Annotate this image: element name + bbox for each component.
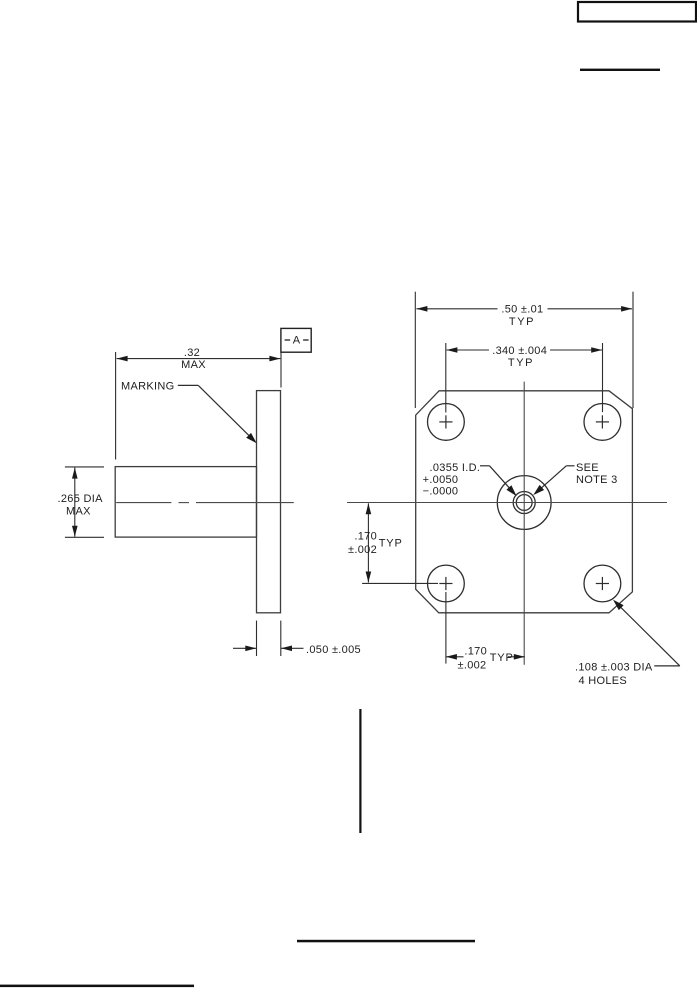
horizontal center line [347,502,667,504]
extension line bottom (from bottom-left hole leftward) [362,582,438,584]
dimension .050 ±.005 [233,621,304,656]
header number box (top right) [578,2,696,22]
svg-text:SEE: SEE [576,462,599,474]
mounting hole bottom-left [428,565,465,602]
datum flag -A- [281,328,311,352]
dimension line left part [446,349,489,351]
arrowhead up .170 left [366,503,372,514]
dimension line vertical [367,503,369,582]
arrow stem right [281,647,304,649]
extension line right through top-right hole [602,343,604,412]
footer: bottom-left horizontal rule [0,985,194,988]
svg-text:.170: .170 [464,646,487,658]
extension line right (below datum box) [280,352,282,387]
extension line right [280,621,282,656]
mounting hole top-right [584,404,621,441]
svg-text:TYP: TYP [509,316,535,328]
flange outline octagon [416,391,633,613]
body outline (cylinder side view) [115,467,256,537]
dimension line vertical [74,468,76,537]
svg-text:MARKING: MARKING [121,381,174,393]
svg-text:.0355 I.D.: .0355 I.D. [430,462,481,474]
arrowhead pointing left (right side) [281,646,292,652]
svg-text:±.002: ±.002 [458,660,487,672]
arrowhead down .265 [72,526,78,537]
dimension line [117,358,281,360]
arrow stem left [233,647,256,649]
header underline (top right) [580,69,660,71]
dimension line right part [550,349,602,351]
dimension .32 MAX [116,352,281,460]
svg-text:.340 ±.004: .340 ±.004 [492,345,547,357]
arrowhead left .170 bottom [446,654,457,660]
svg-text:TYP: TYP [379,537,403,549]
extension line below bottom-left hole [445,592,447,664]
arrowhead pointing right (left side) [245,646,256,652]
leader .108 [618,604,680,666]
svg-text:TYP: TYP [508,357,534,369]
dimension .265 DIA MAX [65,467,104,537]
arrowhead right .340 [591,347,602,353]
arrowhead right of .32 [269,356,280,362]
flange outline (side view) [257,391,281,613]
svg-text:±.002: ±.002 [348,544,377,556]
svg-text:.170: .170 [354,531,377,543]
arrowhead left .50 [416,306,427,312]
leader .0355 [480,466,512,491]
arrow stem right [508,656,525,658]
MARKING leader arrowhead [246,433,257,444]
arrowhead down .170 left [366,572,372,583]
svg-text:.050 ±.005: .050 ±.005 [306,644,361,656]
mounting hole top-left [428,404,465,441]
svg-text:A: A [293,335,301,347]
dimension line right part [548,308,633,310]
svg-text:.50 ±.01: .50 ±.01 [501,304,543,316]
arrowhead left of .32 [117,356,128,362]
footer: center horizontal rule [297,940,475,943]
dimension .170 ±.002 TYP (left, vertical) [362,503,438,583]
arrowhead right .50 [621,306,632,312]
arrow stem left [446,656,464,658]
extension line left [414,292,416,408]
leader SEE NOTE 3 [538,466,575,491]
dimension .50 ±.01 TYP [415,292,633,408]
extension line left [115,352,117,460]
extension tick top [65,466,104,468]
leader SEE NOTE 3 arrowhead [533,485,544,495]
extension line right [632,292,634,408]
arrowhead right .170 bottom [514,654,525,660]
MARKING leader [178,385,252,438]
leader .108 arrowhead [613,600,624,611]
svg-text:MAX: MAX [181,359,206,371]
mounting hole bottom-right [584,565,621,602]
svg-text:4 HOLES: 4 HOLES [579,675,628,687]
svg-text:.265 DIA: .265 DIA [58,493,104,505]
extension line left through top-left hole [445,343,447,413]
svg-text:TYP: TYP [490,652,514,664]
center hole concentric circles [497,476,551,530]
leader .0355 arrowhead [506,485,516,496]
dimension line left part [416,308,497,310]
arrowhead left .340 [446,347,457,353]
svg-text:−.0000: −.0000 [423,485,459,497]
svg-text:NOTE 3: NOTE 3 [576,474,618,486]
footer: vertical rule [359,709,361,833]
svg-text:MAX: MAX [66,506,91,518]
dimension .170 ±.002 TYP (bottom, horizontal) [446,592,525,664]
extension line left [256,621,258,656]
dimension .340 ±.004 TYP [446,343,603,413]
svg-text:.108 ±.003 DIA: .108 ±.003 DIA [575,662,653,674]
svg-text:+.0050: +.0050 [423,474,459,486]
vertical center line [523,382,525,665]
extension tick bottom [65,536,104,538]
arrowhead up .265 [72,468,78,479]
svg-text:.32: .32 [184,347,200,359]
center line (left view, dashed) [116,502,294,504]
